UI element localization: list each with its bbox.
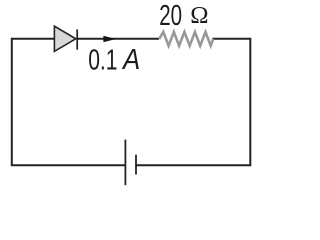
resistor R1 zigzag xyxy=(159,32,213,46)
svg-text:20: 20 xyxy=(159,0,182,32)
svg-text:0.1: 0.1 xyxy=(88,44,117,76)
wire: top segment diode to resistor xyxy=(76,38,159,40)
wire: bottom-left segment to battery long plate xyxy=(11,164,126,166)
diode D1 cathode bar xyxy=(76,29,78,49)
wire: left vertical segment xyxy=(11,38,13,166)
battery long plate (positive) xyxy=(124,140,126,186)
current arrow xyxy=(103,36,115,43)
wire: right vertical segment xyxy=(249,39,251,167)
wire: top segment resistor to right corner xyxy=(213,38,252,40)
svg-text:A: A xyxy=(121,44,140,76)
battery short plate (negative) xyxy=(135,155,137,175)
wire: top-left horizontal segment xyxy=(12,38,55,40)
svg-text:Ω: Ω xyxy=(190,2,208,29)
wire: bottom-right segment from battery short plate xyxy=(136,164,250,166)
diode D1 triangle xyxy=(54,26,75,51)
